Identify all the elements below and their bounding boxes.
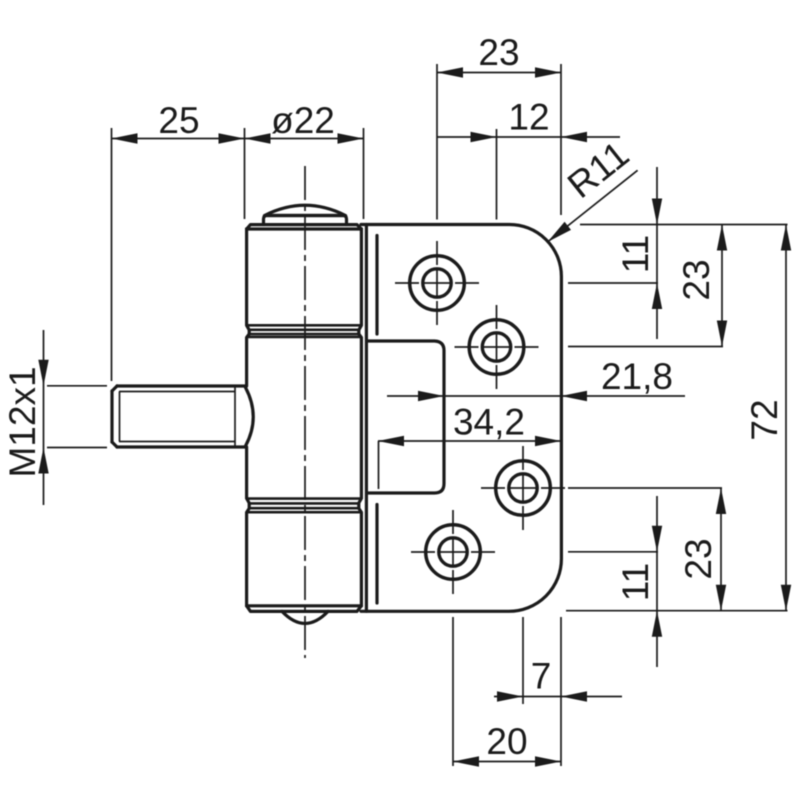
svg-text:25: 25 [158,100,199,141]
svg-text:23: 23 [676,259,717,300]
svg-text:12: 12 [508,97,549,138]
svg-text:11: 11 [615,235,656,273]
svg-text:20: 20 [486,721,527,762]
svg-text:34,2: 34,2 [453,402,525,443]
svg-text:72: 72 [744,399,785,440]
svg-text:ø22: ø22 [271,100,335,141]
svg-text:M12x1: M12x1 [2,366,43,477]
svg-text:7: 7 [531,656,552,697]
svg-text:21,8: 21,8 [601,356,673,397]
svg-text:23: 23 [478,32,519,73]
svg-text:23: 23 [678,538,719,579]
svg-text:11: 11 [615,563,656,601]
